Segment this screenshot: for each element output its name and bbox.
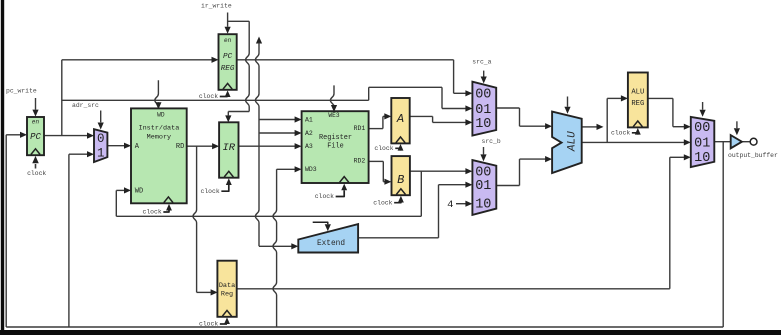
svg-text:clock: clock: [143, 209, 162, 216]
control register file WE3 stub: [330, 85, 334, 106]
svg-text:Register: Register: [319, 134, 352, 142]
svg-text:00: 00: [694, 121, 710, 136]
svg-text:adr_src: adr_src: [72, 102, 99, 109]
svg-text:Data: Data: [219, 282, 235, 290]
svg-text:ir_write: ir_write: [201, 2, 232, 9]
svg-text:IR: IR: [222, 142, 235, 154]
svg-text:clock: clock: [315, 193, 334, 200]
svg-text:10: 10: [694, 151, 710, 166]
wire A register output to src_a mux input 10: [410, 115, 433, 117]
svg-text:src_a: src_a: [472, 59, 491, 66]
memory Instr/data Memory: [131, 108, 187, 203]
svg-text:clock: clock: [199, 93, 218, 100]
register file: [302, 111, 369, 183]
extend Extend: [298, 224, 358, 252]
mux src_b: [472, 160, 496, 215]
wire src_b mux output to ALU: [496, 185, 519, 187]
svg-text:WE3: WE3: [328, 112, 339, 119]
svg-text:REG: REG: [631, 100, 644, 108]
svg-text:RD2: RD2: [354, 158, 366, 165]
wire WriteData: B to memory WD: [420, 171, 422, 216]
svg-text:01: 01: [475, 179, 491, 194]
wire ALU REG output to result mux input 00: [648, 97, 673, 99]
wire ALU output bus to result mux input 01: [582, 141, 685, 143]
svg-text:B: B: [397, 173, 404, 187]
svg-text:01: 01: [694, 136, 710, 151]
wire Extend output to src_b mux input 01: [358, 237, 438, 239]
register IR: [219, 122, 238, 177]
wire RD2 to B register: [369, 160, 384, 162]
wire PC input from Result (left riser): [5, 135, 7, 327]
wire Result riser down from mux output: [722, 142, 724, 327]
svg-text:File: File: [327, 143, 344, 151]
wire to Extend input: [259, 245, 292, 247]
mux src_a: [472, 82, 496, 136]
wire to register file A2: [259, 132, 295, 134]
svg-text:RD1: RD1: [354, 125, 366, 132]
svg-text:en: en: [32, 118, 40, 125]
register Data Reg: [217, 261, 236, 317]
mux result: [691, 117, 715, 167]
svg-text:Instr/data: Instr/data: [139, 125, 180, 133]
wire Data Reg output bus: [237, 288, 670, 290]
mux adr_src: [94, 129, 107, 162]
wire PC output to adr_src mux input 0: [44, 135, 88, 137]
wire result mux output to output buffer: [714, 141, 730, 143]
svg-text:10: 10: [475, 117, 491, 132]
svg-text:REG: REG: [221, 65, 235, 73]
svg-text:A1: A1: [305, 117, 313, 124]
svg-text:output_buffer: output_buffer: [728, 152, 778, 159]
svg-text:RD: RD: [176, 143, 184, 151]
control Extend imm_src stub: [313, 222, 328, 224]
wire constant 4 to src_b mux input 10: [456, 203, 466, 205]
alu ALU: [552, 112, 582, 173]
wire Result riser to adr_src mux input 1: [68, 154, 70, 327]
svg-text:ALU: ALU: [566, 131, 578, 152]
wire RD1 to A register: [369, 128, 383, 130]
svg-text:pc_write: pc_write: [6, 87, 37, 94]
svg-text:Extend: Extend: [317, 240, 345, 248]
svg-text:00: 00: [475, 88, 491, 103]
svg-text:WD3: WD3: [305, 166, 317, 173]
wire IR output to register file A3: [239, 145, 296, 147]
wire B register output to src_b mux input 00: [410, 170, 466, 172]
svg-text:4: 4: [447, 199, 453, 211]
register ALU REG: [628, 73, 648, 128]
control ir_write to IR enable: [246, 21, 250, 111]
wire output buffer to pin: [742, 141, 750, 143]
register PC REG: [219, 34, 237, 90]
register B: [392, 156, 410, 195]
wire Data riser to result mux input 10: [669, 157, 671, 288]
wire Result to register file WD3: [273, 169, 277, 327]
svg-text:1: 1: [97, 146, 105, 160]
wire src_a mux output to ALU: [496, 107, 519, 109]
svg-text:A3: A3: [305, 143, 313, 150]
svg-text:Reg: Reg: [221, 291, 233, 299]
wire to register file A1: [259, 119, 295, 121]
svg-text:clock: clock: [374, 145, 393, 152]
svg-text:clock: clock: [373, 199, 392, 206]
svg-text:Memory: Memory: [147, 133, 171, 141]
svg-text:10: 10: [475, 198, 491, 213]
svg-text:PC: PC: [30, 132, 41, 142]
wire memory RD to IR: [187, 145, 213, 147]
control output_buffer enable stub: [736, 121, 738, 128]
svg-text:ALU: ALU: [631, 88, 644, 96]
svg-text:clock: clock: [199, 321, 218, 328]
svg-text:src_b: src_b: [482, 138, 501, 145]
control ALU op stub: [567, 97, 569, 107]
svg-text:clock: clock: [27, 170, 46, 177]
control memory WE stub: [155, 80, 159, 107]
wire Result bus bottom: [6, 326, 723, 328]
control result mux stub: [702, 102, 704, 110]
svg-text:A: A: [396, 112, 404, 126]
wire instruction vertical (IR out branch, arrow up, down to Extend): [256, 37, 262, 44]
wire ALU zero flag arrow: [582, 126, 597, 128]
wire PC REG output to src_a mux input 00: [237, 59, 454, 61]
svg-text:PC: PC: [223, 53, 233, 61]
svg-text:WD: WD: [135, 187, 143, 195]
svg-text:en: en: [224, 37, 232, 44]
buffer output_buffer: [731, 135, 742, 148]
wire PC output riser to PC REG input and src_a branch: [61, 60, 63, 136]
wire ALU output riser to ALU REG input: [606, 98, 608, 142]
wire adr_src mux output to memory A: [107, 145, 124, 147]
wire memory RD to Data Reg input: [193, 146, 197, 292]
svg-text:0: 0: [97, 132, 105, 146]
svg-text:clock: clock: [201, 188, 220, 195]
border frame bars: [1, 0, 4, 335]
svg-text:WD: WD: [157, 111, 165, 118]
svg-text:01: 01: [475, 103, 491, 118]
wire PC to src_a mux input 01: [62, 99, 369, 101]
svg-text:A2: A2: [305, 130, 313, 137]
register PC: [27, 117, 44, 155]
register A: [391, 98, 409, 143]
svg-text:clock: clock: [611, 129, 630, 136]
